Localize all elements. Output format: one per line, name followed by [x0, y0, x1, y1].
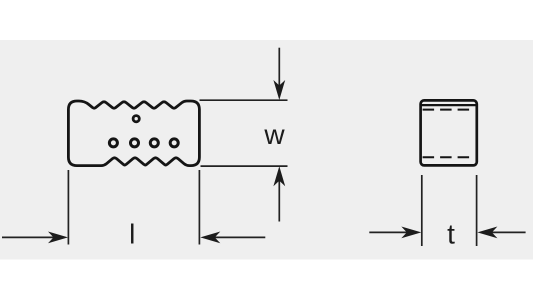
t extension line left: [421, 175, 423, 246]
t arrow left shaft: [369, 231, 408, 233]
side view hidden line bottom: [423, 156, 472, 158]
svg-text:t: t: [447, 218, 455, 249]
w extension line top: [200, 99, 288, 101]
t extension line right: [476, 175, 478, 246]
w arrowhead top (down): [273, 80, 285, 100]
w arrowhead bottom (up): [273, 166, 285, 186]
hole H3: [131, 139, 139, 147]
w extension line bottom: [201, 165, 288, 167]
t arrowhead left (right-pointing): [401, 227, 421, 239]
l arrowhead left (right-pointing): [48, 232, 68, 244]
insert side view body: [421, 100, 477, 165]
hole H1 (top small hole): [133, 116, 139, 122]
svg-text:w: w: [263, 119, 285, 150]
l arrowhead right (left-pointing): [200, 232, 220, 244]
t arrowhead right (left-pointing): [477, 227, 497, 239]
side view collar line: [421, 104, 477, 106]
hole H4: [150, 139, 158, 147]
svg-text:l: l: [129, 219, 135, 250]
w arrow top shaft: [278, 48, 280, 87]
l extension line right: [198, 170, 200, 245]
knurled insert body (front view): [68, 101, 199, 166]
l extension line left: [67, 170, 69, 245]
l arrow left shaft: [2, 236, 55, 238]
hole H5: [170, 139, 178, 147]
w arrow bottom shaft: [278, 180, 280, 222]
hole H2: [109, 139, 117, 147]
t arrow right shaft: [491, 231, 526, 233]
side view hidden line top: [423, 109, 472, 111]
l arrow right shaft: [214, 236, 266, 238]
